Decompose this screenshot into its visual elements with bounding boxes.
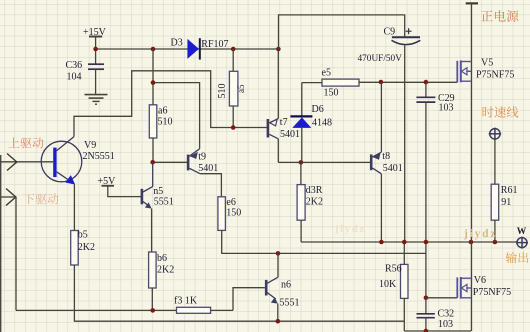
svg-text:10K: 10K	[379, 279, 397, 290]
wire d3R to output rail	[301, 220, 517, 242]
wire gate node down	[425, 242, 427, 298]
svg-text:R56: R56	[385, 264, 402, 275]
input arrow upper	[7, 154, 17, 171]
junction t8-output rail	[379, 240, 384, 245]
terminal crosshair W	[516, 237, 528, 249]
svg-text:2N5551: 2N5551	[83, 151, 115, 162]
svg-text:5401: 5401	[198, 163, 218, 174]
wire b6 down	[151, 288, 153, 310]
svg-text:150: 150	[324, 87, 339, 98]
label 输出	[506, 252, 528, 263]
power port +5V	[98, 176, 142, 197]
svg-text:150: 150	[226, 207, 241, 218]
svg-text:103: 103	[438, 319, 453, 330]
transistor t8	[370, 151, 403, 174]
label 正电源	[481, 10, 518, 22]
wire input2 to bottom	[15, 197, 17, 310]
svg-text:jlydz: jlydz	[334, 223, 366, 235]
power rail top bar	[466, 2, 478, 4]
junction on rail at +15V stub	[93, 47, 98, 52]
capacitor C29	[416, 82, 454, 113]
svg-text:b5: b5	[78, 230, 88, 241]
power port +15V	[83, 27, 107, 49]
svg-text:2K2: 2K2	[78, 242, 95, 253]
wire b5 down and bottom rail 2	[74, 265, 404, 321]
wire bottom rail 1	[16, 309, 233, 311]
wire e5 right to V5 gate	[359, 81, 457, 83]
junction a6-t9 wire	[151, 80, 156, 85]
junction n6 collector	[276, 251, 281, 256]
resistor a5	[217, 71, 246, 106]
svg-text:510: 510	[217, 84, 228, 99]
ground	[85, 95, 108, 105]
junction R61-output rail	[493, 240, 498, 245]
svg-text:t9: t9	[198, 152, 206, 163]
transistor t7	[267, 117, 300, 140]
wire n5 emitter	[151, 209, 153, 252]
resistor f3	[174, 296, 211, 314]
svg-text:470UF/50V: 470UF/50V	[358, 54, 403, 64]
junction C29-gate wire	[424, 80, 429, 85]
transistor n5	[141, 162, 174, 208]
resistor d3R	[297, 185, 323, 221]
wire C29 down	[425, 102, 427, 242]
svg-text:n6: n6	[281, 280, 291, 291]
MOSFET V5	[457, 58, 514, 83]
input arrow lower	[0, 189, 16, 206]
svg-text:W: W	[517, 227, 527, 237]
wire main right vertical	[471, 3, 473, 331]
wire node to t9 base	[153, 161, 188, 163]
watermark faint	[334, 223, 366, 235]
wire a6 branch	[152, 49, 154, 162]
svg-text:C9: C9	[384, 26, 396, 37]
wire e5 left	[302, 82, 322, 84]
svg-text:f3 1K: f3 1K	[174, 296, 198, 307]
junction C29-output rail	[424, 240, 429, 245]
label W	[517, 227, 527, 237]
wire R56 up	[403, 242, 405, 264]
junction a5-t7 wire	[231, 125, 236, 130]
junction on rail at t7/C9 branch	[276, 47, 281, 52]
svg-text:5551: 5551	[280, 297, 300, 308]
svg-text:V6: V6	[474, 275, 486, 286]
junction V5 source-output rail	[469, 240, 474, 245]
wire t9 emitter branch	[153, 83, 200, 149]
wire C9 down	[404, 45, 406, 242]
wire f3 to n6 base	[233, 288, 265, 311]
svg-text:RF107: RF107	[201, 39, 228, 50]
svg-text:D6: D6	[312, 104, 324, 115]
wire t8 collector down	[380, 174, 382, 242]
resistor a6	[149, 105, 172, 138]
svg-text:103: 103	[439, 102, 454, 113]
wire +15V rail	[96, 48, 279, 50]
label 时速线	[483, 106, 519, 117]
wire n6 emitter	[277, 304, 279, 322]
junction V6 gate node	[424, 296, 429, 301]
junction C32 bottom	[424, 329, 429, 332]
svg-text:D3: D3	[171, 38, 183, 49]
wire t9 collector to e6	[200, 174, 221, 197]
diode D3	[171, 38, 229, 60]
wire V9 emitter	[73, 185, 75, 231]
transistor V9	[0, 137, 115, 185]
junction on rail at a6 branch	[151, 47, 156, 52]
svg-text:91: 91	[501, 197, 511, 208]
junction t8 emitter-gate wire	[379, 80, 384, 85]
transistor n6	[265, 277, 300, 308]
svg-text:jiydz: jiydz	[463, 228, 497, 240]
wire a5 branch	[232, 49, 234, 128]
svg-text:2K2: 2K2	[306, 197, 323, 208]
svg-text:a5: a5	[236, 84, 246, 93]
svg-text:n5: n5	[153, 186, 163, 197]
junction R56-output rail	[402, 240, 407, 245]
MOSFET V6	[457, 275, 511, 299]
svg-text:+15V: +15V	[83, 27, 107, 38]
wire R61 down	[494, 220, 496, 242]
svg-text:V5: V5	[481, 58, 493, 69]
svg-text:104: 104	[67, 72, 82, 83]
resistor R61	[491, 184, 517, 220]
svg-text:t7: t7	[280, 117, 288, 128]
resistor b5	[71, 230, 95, 265]
svg-text:e5: e5	[322, 67, 331, 78]
wire R56 down	[403, 298, 405, 331]
svg-text:P75NF75: P75NF75	[476, 70, 514, 81]
resistor e6	[218, 197, 241, 231]
svg-text:P75NF75: P75NF75	[473, 287, 511, 298]
label 上驱动	[8, 137, 43, 148]
wire t7 emitter up	[277, 49, 279, 119]
terminal crosshair upper	[489, 128, 501, 140]
wire bottom rail 3	[404, 330, 471, 332]
junction D6-d3R-base wire	[299, 160, 304, 165]
resistor b6	[149, 252, 175, 288]
wire V6 gate	[426, 297, 457, 299]
resistor e5	[322, 67, 360, 98]
wire terminal to R61	[494, 140, 496, 184]
wire e6 down to gate line	[222, 230, 426, 253]
svg-text:4148: 4148	[312, 117, 332, 128]
junction b6-wire1	[150, 308, 155, 313]
label 下驱动	[23, 193, 58, 204]
wire V9 collector to t7 base	[74, 71, 268, 137]
svg-text:5551: 5551	[154, 197, 174, 208]
svg-text:t8: t8	[382, 151, 390, 162]
wire t7-t8 base	[278, 161, 370, 163]
wire n6 collector	[277, 253, 279, 277]
left edge line	[0, 155, 2, 332]
svg-text:C36: C36	[66, 60, 83, 71]
capacitor C36	[66, 49, 105, 95]
diode D6	[290, 83, 332, 163]
watermark jiydz	[463, 228, 497, 240]
svg-text:2K2: 2K2	[157, 265, 174, 276]
junction n6 emitter-rail2	[276, 319, 281, 324]
junction on rail at a5 branch	[231, 47, 236, 52]
svg-text:5401: 5401	[383, 163, 403, 174]
junction a6-n5-t9	[150, 160, 155, 165]
wire t7 collector down	[277, 139, 279, 163]
svg-text:a6: a6	[158, 106, 167, 117]
svg-text:R61: R61	[501, 185, 518, 196]
resistor R56	[379, 264, 408, 299]
svg-text:d3R: d3R	[306, 185, 323, 196]
svg-text:510: 510	[158, 117, 173, 128]
transistor t9	[187, 148, 219, 174]
wire rail to C9	[279, 15, 405, 49]
svg-text:5401: 5401	[280, 129, 300, 140]
wire t8 emitter up	[380, 82, 382, 152]
capacitor C9	[358, 26, 421, 64]
svg-text:b6: b6	[157, 253, 167, 264]
svg-text:V9: V9	[84, 140, 96, 151]
capacitor C32	[417, 298, 455, 331]
wire d3R top	[300, 162, 302, 184]
